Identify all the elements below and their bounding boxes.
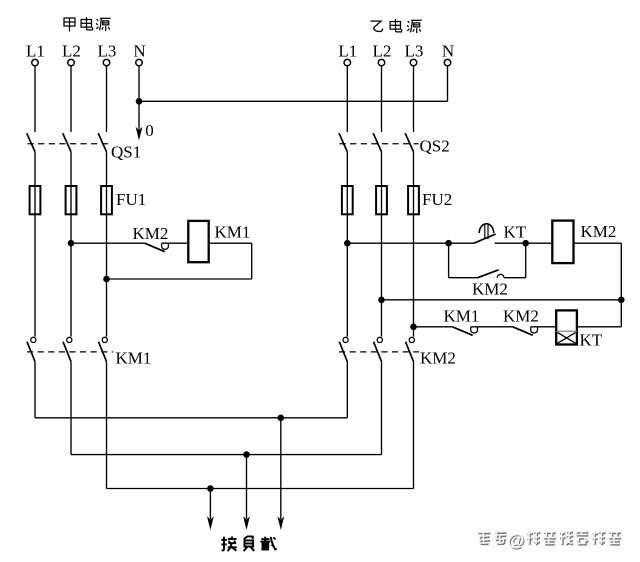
load arrow 3 [277, 418, 284, 530]
contact KM2 main pole 1 [339, 337, 348, 361]
terminal L3 (source B) [410, 59, 417, 66]
coil KM2 [552, 221, 573, 264]
contact KM2 NO self-lock blade [478, 270, 499, 278]
contact KT time-delay symbol (dome + stem) [479, 224, 494, 239]
contact KT delayed NO blade [474, 234, 496, 243]
svg-text:L2: L2 [62, 41, 81, 60]
wire control line 2 [382, 299, 622, 301]
switch QS1 pole 3 blade [98, 133, 106, 151]
svg-text:QS2: QS2 [420, 137, 450, 156]
coil KT (time relay) [556, 310, 577, 344]
wire L2A QS1 to KM1 contact [70, 152, 72, 337]
svg-text:KM1: KM1 [215, 223, 251, 242]
terminal L1 (source B) [344, 59, 351, 66]
arrow to node 0 (neutral tap) [136, 101, 143, 140]
KM1 gang link (dashed) [27, 351, 113, 353]
fuse FU2 element 3 [408, 186, 419, 214]
svg-text:L3: L3 [98, 41, 117, 60]
wire L3B KM2 to output line 3 [413, 361, 415, 488]
junction L3B / control line 3 [410, 324, 417, 331]
fuse FU2 element 1 [342, 186, 353, 214]
wire output line 3 [107, 488, 414, 490]
switch QS1 pole 1 blade [27, 133, 35, 151]
label 甲电源 (source A title) [64, 17, 111, 31]
svg-text:KM1: KM1 [116, 349, 152, 368]
junction L2A / KM1 coil branch [68, 240, 75, 247]
wire L1B KM2 to output line 1 [346, 361, 348, 418]
terminal L1 (source A) [32, 59, 39, 66]
svg-text:KM2: KM2 [472, 280, 508, 299]
fuse FU2 element 2 [376, 186, 387, 214]
wire N bus [139, 100, 448, 102]
wire L3B to KM1 NC [414, 326, 453, 328]
contact KM1 main pole 3 [99, 337, 108, 361]
QS2 gang link (dashed) [340, 143, 419, 145]
svg-text:L2: L2 [373, 41, 392, 60]
switch QS2 pole 1 blade [339, 133, 347, 151]
wire KM2 NO to bypass right riser [504, 277, 526, 279]
wire bypass left drop [448, 243, 450, 278]
terminal N (source A) [136, 59, 143, 66]
svg-text:FU2: FU2 [422, 190, 452, 209]
wire KM2 coil to right riser [574, 242, 622, 244]
svg-text:@: @ [507, 530, 524, 550]
junction N bus [136, 98, 143, 105]
wire KM1 NC to KM2 NC [471, 326, 513, 328]
svg-text:L1: L1 [26, 41, 45, 60]
contact KM2 NC blade [513, 327, 533, 336]
svg-text:KM1: KM1 [444, 307, 480, 326]
svg-text:KM2: KM2 [133, 224, 169, 243]
label 乙电源 (source B title) [371, 19, 422, 33]
terminal L2 (source B) [378, 59, 385, 66]
wire N(A) terminal down [138, 66, 140, 101]
junction output line 2 tap [243, 451, 250, 458]
watermark 头条@科技智能制造 (embossed) [478, 530, 621, 551]
contact KM2 NC stop hook [531, 327, 538, 333]
terminal N (source B) [444, 59, 451, 66]
switch QS2 pole 2 blade [373, 133, 381, 151]
svg-text:QS1: QS1 [111, 143, 141, 162]
junction L3A / KM1 coil return [103, 276, 110, 283]
switch QS2 pole 3 blade [405, 133, 413, 151]
svg-text:KM2: KM2 [420, 349, 456, 368]
wire KM2 NC to KM1 coil [162, 242, 189, 244]
terminal L3 (source A) [103, 59, 110, 66]
wire bypass to KM2 NO contact [449, 277, 478, 279]
wire KT contact to junction [495, 242, 526, 244]
wire L3B terminal to QS2 [413, 66, 415, 132]
contact KM1 NC stop hook [471, 327, 478, 333]
wire L1A QS1 to KM1 contact [34, 152, 36, 337]
wire KM1 coil return down [251, 243, 253, 279]
svg-text:L3: L3 [405, 41, 424, 60]
contact KM1 main pole 2 [63, 337, 72, 361]
wire L1A KM1 to output line 1 [34, 361, 36, 418]
wire L3B QS2 to KM2 contact [413, 152, 415, 337]
contact KM2 NO fixed-terminal bump [497, 274, 504, 277]
wire L1B terminal to QS2 [346, 66, 348, 132]
wire L1B to KT delayed contact [347, 242, 474, 244]
svg-text:KT: KT [504, 223, 527, 242]
wire L2B KM2 to output line 2 [381, 361, 383, 454]
wire N(B) terminal down [447, 66, 449, 101]
svg-text:L1: L1 [338, 41, 357, 60]
wire L3A QS1 to KM1 contact [106, 152, 108, 337]
svg-text:KM2: KM2 [581, 222, 617, 241]
junction output line 3 tap [207, 485, 214, 492]
wire bypass right riser [525, 243, 527, 278]
svg-text:FU1: FU1 [116, 190, 146, 209]
wire L2B QS2 to KM2 contact [381, 152, 383, 337]
svg-text:KT: KT [580, 331, 603, 350]
label 接负载 (to load) [221, 536, 276, 551]
wire right riser [620, 243, 622, 327]
fuse FU1 element 2 [66, 186, 77, 214]
wire junction to KM2 coil [526, 242, 553, 244]
KM2 gang link (dashed) [339, 351, 419, 353]
wire L2B terminal to QS2 [381, 66, 383, 132]
wire L2A to KM2 NC interlock [71, 242, 145, 244]
junction L1B / control line [344, 240, 351, 247]
switch QS1 pole 2 blade [63, 133, 71, 151]
svg-text:N: N [442, 41, 454, 60]
wire KM1 coil return to L3A [107, 278, 252, 280]
wire KT coil to right riser [577, 326, 621, 328]
wire L2A KM1 to output line 2 [70, 361, 72, 454]
contact KM2 NC interlock blade [145, 243, 165, 252]
junction output line 1 tap [278, 415, 285, 422]
junction L2B / control line 2 [378, 297, 385, 304]
contact KM2 main pole 2 [374, 337, 383, 361]
load arrow 2 [243, 455, 250, 530]
contact KM1 main pole 1 [27, 337, 36, 361]
wire KM1 coil to corner [209, 242, 252, 244]
junction KM2 bypass left [445, 240, 452, 247]
fuse FU1 element 3 [101, 186, 112, 214]
wire KM2 NC to KT coil [531, 326, 557, 328]
junction KT/KM2-bypass right [522, 240, 529, 247]
terminal L2 (source A) [68, 59, 75, 66]
svg-text:N: N [133, 41, 145, 60]
wire L1A terminal to QS1 [34, 66, 36, 132]
contact KM2 main pole 3 [406, 337, 415, 361]
contact KM1 NC blade [452, 327, 472, 336]
fuse FU1 element 1 [30, 186, 41, 214]
coil KM1 [188, 221, 208, 262]
junction right riser / line 2 [618, 297, 625, 304]
svg-text:KM2: KM2 [503, 307, 539, 326]
wire L3A KM1 to output line 3 [106, 361, 108, 488]
load arrow 1 [207, 489, 214, 531]
contact KM2 NC interlock stop hook [162, 243, 169, 249]
wire output line 2 [71, 454, 382, 456]
wire L1B QS2 to KM2 contact [346, 152, 348, 337]
wire L3A terminal to QS1 [106, 66, 108, 132]
QS1 gang link (dashed) [28, 143, 113, 145]
wire L2A terminal to QS1 [70, 66, 72, 132]
svg-text:0: 0 [145, 121, 154, 140]
wire output line 1 [35, 417, 347, 419]
